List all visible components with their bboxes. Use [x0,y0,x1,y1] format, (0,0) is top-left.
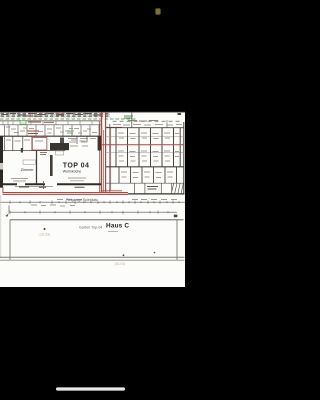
cellar block top wall [106,127,184,129]
inner wall line [0,124,101,126]
small note text [40,153,47,155]
short grid tick [166,120,168,128]
garden boundary line [10,219,184,221]
AR cell labels row3 [121,172,173,178]
cell mid line row2 [106,152,184,154]
cellar block mid wall [106,166,184,168]
phone background [0,0,185,400]
row2 cells [116,145,180,166]
red text marks [27,131,39,134]
apartment north wall [0,120,101,122]
row3b cells [135,183,172,194]
red marks top [28,121,54,123]
wall line y136 [0,135,101,137]
dimension line 2 [10,211,177,213]
AR cell labels row2 [118,151,179,161]
dimension-number text band (top, left half) [0,112,110,117]
Wohnkueche area text [68,178,86,181]
green box [20,120,26,124]
svg-text:Zimmer: Zimmer [21,168,35,172]
photo area [0,112,185,288]
arrow mark left [6,214,9,217]
thick wall at apartment NE corner [98,136,101,151]
row1 cells [116,128,180,145]
wall line y150 [0,150,65,152]
junction block right [174,215,178,218]
dimension tag box [56,151,64,155]
home indicator [56,387,125,390]
dimension text band (right half) [112,120,182,123]
garden east fence [176,220,178,260]
tiny labels [6,139,96,147]
red corridor line [110,128,112,191]
wall stub above Zimmer [21,148,23,153]
status bar battery (low-power yellow) [155,8,160,14]
small tick text under line [31,205,75,206]
east interior wall [99,121,101,194]
facade labels [19,186,85,188]
red retaining wall upper line [3,192,129,194]
wall ticks row [3,121,92,125]
street lower line [0,259,185,261]
red top edge of corridor [106,126,122,128]
svg-text:Wohnküche: Wohnküche [63,169,81,173]
south edge of block [106,193,184,195]
interior wall stub [50,155,53,176]
cell mid line row1 [106,136,184,138]
AR cell labels row1 [118,133,179,139]
garden west fence [9,220,11,260]
svg-text:Garten Top-04: Garten Top-04 [79,226,103,230]
red south edge of corridor [101,190,122,192]
row3 cells [119,167,177,183]
red dimension figures [26,114,64,116]
svg-text:(81.93): (81.93) [115,262,126,266]
dimension numbers row [1,114,101,116]
door post [60,138,64,144]
cellar block top text row [113,124,182,127]
svg-text:(a1.93): (a1.93) [40,232,51,236]
dimension tag box in Zimmer [23,160,36,164]
AR 36 label [147,187,158,190]
red row line [102,144,184,146]
dark wall block [50,143,69,150]
Zimmer area text [11,179,28,182]
vertical grid line right [131,112,133,128]
faint plan border left [0,195,2,258]
small rooms band y125-136 [5,125,100,136]
street upper line [0,256,185,258]
small mark top-right corner [178,113,182,115]
gray measure texts right [128,120,158,123]
vertical text column left [8,206,10,214]
west outer wall [0,136,3,188]
measure numbers above dimension line [57,199,177,201]
south wall with windows [0,183,101,185]
hatched cell bottom-right [172,183,184,193]
survey point dot [44,228,46,230]
red dashed mark near south wall [43,181,45,189]
svg-text:Haus C: Haus C [106,222,129,229]
green Bad text [67,131,74,133]
green text blob right [124,116,133,118]
cellar block lower wall [106,182,184,184]
small point right [154,252,156,254]
point above street line [123,254,125,256]
window in west wall [0,163,3,170]
tiny note under Haus C [108,231,118,233]
red outlined room [32,138,47,150]
wall between Zimmer and Wohnkueche [36,151,38,184]
tiny room labels [6,127,97,133]
red west corner stub [2,187,4,193]
dimension line 1 [0,201,185,203]
